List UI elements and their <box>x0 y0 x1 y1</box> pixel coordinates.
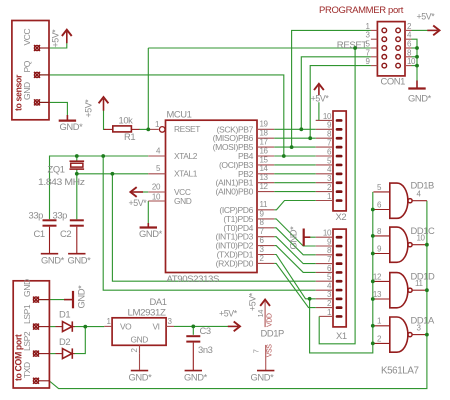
svg-text:C1: C1 <box>34 228 45 239</box>
svg-text:C3: C3 <box>200 325 211 336</box>
svg-text:XTAL2: XTAL2 <box>174 151 198 161</box>
junction CON1 gnd 8 <box>415 55 419 59</box>
right pin names <box>213 124 254 268</box>
wire gate output bus <box>49 201 427 389</box>
COM pad LSP2 <box>33 351 49 357</box>
svg-text:GND: GND <box>174 196 192 206</box>
CON1 pads right column <box>396 28 401 68</box>
wire XTAL2 net to X1 pin 4 <box>103 156 316 290</box>
X2 pin stubs <box>316 120 333 200</box>
X2 pads <box>336 119 343 202</box>
junction PQ to PB4 <box>282 154 286 158</box>
CON1 pads left column <box>382 28 387 68</box>
+5V supply symbol at sensor <box>62 30 72 44</box>
svg-text:X1: X1 <box>336 330 347 341</box>
wire MCU PB1 to X2 pin 3 <box>274 182 316 184</box>
pin numbers DD1C <box>377 227 426 254</box>
wire gate input bus <box>372 192 374 344</box>
wire crystal top lead <box>76 156 78 161</box>
resistor R1 <box>104 126 139 132</box>
junction CON1.1 net <box>290 145 294 149</box>
svg-text:11: 11 <box>415 279 423 288</box>
wire MCU PB3 to X2 pin 5 <box>274 164 316 166</box>
wire MCU PD1 diagonal to X1 pin 3 <box>274 255 316 299</box>
wire X2 pin 10 to +5V <box>316 102 319 120</box>
X1 pin stubs <box>316 237 333 316</box>
wire MCU PD4 diagonal to X1 pin 8 <box>274 228 316 255</box>
svg-text:C2: C2 <box>60 228 71 239</box>
svg-text:+5V*: +5V* <box>129 198 148 208</box>
+5V supply symbol at DA1 output (pointing right) <box>228 322 240 332</box>
wire C3 top lead <box>192 326 194 334</box>
svg-text:DD1B: DD1B <box>411 179 435 190</box>
svg-text:33p: 33p <box>53 209 68 220</box>
COM pad GND <box>33 297 49 303</box>
svg-text:ZQ1: ZQ1 <box>48 163 65 174</box>
ground symbol below DD1P VSS <box>257 370 274 372</box>
svg-text:VCC: VCC <box>22 28 32 45</box>
svg-text:10: 10 <box>323 229 332 238</box>
wire MCU PD2 diagonal to X1 pin 6 <box>274 246 316 273</box>
svg-text:GND*: GND* <box>139 228 163 239</box>
junction gate bus DD1C.8 <box>371 234 375 238</box>
wire sensor GND to ground <box>40 102 68 115</box>
svg-text:10k: 10k <box>119 114 134 125</box>
COM pad TXD <box>33 378 49 384</box>
wire MCU PD0 diagonal to X1 pin 2 <box>274 263 316 307</box>
wire D2 cathode up to D1 net <box>74 327 85 354</box>
wire RESET net horizontal to CON1 pin 5 <box>148 47 371 49</box>
svg-text:10: 10 <box>407 57 416 66</box>
junction XTAL2 to X1.4 <box>101 154 105 158</box>
wire XTAL1 net to X1 pin 5 <box>112 174 315 281</box>
wire MCU VCC to +5V arrow <box>143 191 149 193</box>
svg-text:33p: 33p <box>29 209 44 220</box>
svg-text:18: 18 <box>260 129 269 138</box>
svg-text:20: 20 <box>152 182 161 191</box>
svg-text:GND*: GND* <box>41 254 65 265</box>
junction R1 RESET <box>146 127 150 131</box>
svg-text:3n3: 3n3 <box>198 344 213 355</box>
junction CON1.9 net <box>308 136 312 140</box>
MCU right pins PB7-PB0 stubs <box>257 129 274 191</box>
ground symbol below DA1 <box>131 370 148 372</box>
wire MCU PD3 diagonal to X1 pin 7 <box>274 237 316 264</box>
wire D1 cathode to DA1 VO <box>74 326 104 328</box>
nand gate DD1B <box>373 183 427 218</box>
svg-text:RESET: RESET <box>337 40 368 50</box>
CON1 left pin stubs 1,3,5,7,9 <box>371 30 378 65</box>
svg-text:LSP2: LSP2 <box>22 331 32 351</box>
nand gate DD1A <box>373 317 427 352</box>
svg-text:17: 17 <box>260 138 269 147</box>
junction X1.3 TXD <box>308 297 312 301</box>
ground symbol below CON1 <box>408 81 425 89</box>
svg-text:GND: GND <box>22 279 32 297</box>
connector X2 box <box>333 111 346 211</box>
X1 pads <box>336 236 343 318</box>
svg-text:+5V*: +5V* <box>51 29 61 48</box>
svg-text:(RXD)PD0: (RXD)PD0 <box>216 258 254 268</box>
svg-text:RESET: RESET <box>174 124 200 134</box>
diode D1 <box>56 321 75 331</box>
svg-text:14: 14 <box>260 164 269 173</box>
crystal ZQ1 <box>70 161 85 169</box>
MCU pin 1 RESET with inversion circle <box>148 127 165 133</box>
junction CON1 gnd 6 <box>415 46 419 50</box>
svg-text:+5V*: +5V* <box>417 12 436 22</box>
wire MCU PB5 to X2 pin 7 <box>274 146 316 148</box>
MCU pin 4 XTAL2 <box>148 155 165 157</box>
svg-text:19: 19 <box>260 120 269 129</box>
svg-text:VO: VO <box>120 322 132 332</box>
svg-text:LSP1: LSP1 <box>22 304 32 324</box>
CON1 right pin numbers <box>407 22 416 66</box>
power pin DD1P VDD supply arrow <box>260 300 270 328</box>
MCU right pins PD6-PD0 stubs <box>257 210 274 264</box>
svg-text:GND: GND <box>131 334 149 344</box>
junction gate bus DD1A.1 <box>371 324 375 328</box>
junction gate bus DD1D.13 <box>371 297 375 301</box>
junction CON1 gnd 10 <box>415 64 419 68</box>
connector "to sensor" box <box>12 21 49 120</box>
junction gate bus DD1D.12 <box>371 280 375 284</box>
connector CON1 box <box>377 22 405 76</box>
svg-text:D2: D2 <box>59 336 70 347</box>
voltage regulator DA1 LM2931Z box <box>112 318 166 346</box>
junction output bus DD1C.10 <box>425 243 429 247</box>
svg-text:XTAL1: XTAL1 <box>174 169 198 179</box>
wire CON1 pin 6 stub to bus <box>412 47 418 49</box>
junction gate bus DD1C.9 <box>371 252 375 256</box>
svg-text:7: 7 <box>252 349 261 353</box>
nand gate DD1C <box>373 227 427 262</box>
pin numbers DD1D <box>373 272 424 299</box>
+5V supply symbol at CON1 (pointing right) <box>427 26 439 36</box>
CON1 right pin stubs 2,4,6,8,10 <box>405 30 412 65</box>
op-amp U1 MCU1 box <box>166 120 258 272</box>
svg-text:10: 10 <box>323 112 332 121</box>
capacitor C1 <box>43 220 57 253</box>
junction XTAL1 to X1.5 <box>111 172 115 176</box>
connector "to COM port" box <box>13 281 49 388</box>
wire CON1 pin 10 stub to bus <box>412 65 418 67</box>
X2 pin numbers <box>323 112 332 201</box>
ground symbol below C3 <box>185 370 202 372</box>
svg-text:PQ: PQ <box>22 60 32 72</box>
wire D2 anode <box>49 353 55 355</box>
wire XTAL2 net to C1 <box>50 156 149 219</box>
right pin numbers <box>260 120 269 263</box>
svg-text:GND*: GND* <box>184 372 208 383</box>
CON1 left pin numbers <box>365 22 370 66</box>
svg-text:12: 12 <box>373 272 382 281</box>
svg-text:X2: X2 <box>336 211 347 222</box>
DA1 pin 2 stub <box>139 345 141 353</box>
svg-text:GND*: GND* <box>251 372 275 383</box>
svg-text:13: 13 <box>260 173 269 182</box>
svg-text:R1: R1 <box>124 131 135 142</box>
wire X1 pin 10 to ground <box>310 236 316 238</box>
svg-text:14: 14 <box>256 310 265 318</box>
+5V supply symbol above X2 <box>314 84 324 95</box>
DA1 ground lead <box>139 353 141 370</box>
svg-text:GND*: GND* <box>60 121 84 132</box>
wire RESET net vertical up from R1 junction <box>147 48 149 129</box>
DA1 pin 3 stub <box>166 325 174 327</box>
junction D1 D2 <box>83 325 87 329</box>
svg-text:K561LA7: K561LA7 <box>381 366 419 377</box>
wire R1 to MCU RESET pin <box>139 128 148 130</box>
junction gate bus DD1A.2 <box>371 342 375 346</box>
power pin DD1P VSS lead <box>265 345 267 370</box>
svg-text:GND*: GND* <box>408 93 432 104</box>
ground symbol below sensor <box>59 115 76 121</box>
svg-text:1.843 MHz: 1.843 MHz <box>38 176 85 187</box>
sensor pad PQ <box>34 72 49 78</box>
svg-text:DA1: DA1 <box>150 296 167 307</box>
svg-text:10: 10 <box>152 193 161 202</box>
junction C3 <box>191 325 195 329</box>
ground symbol right of COM GND (rotated) <box>64 291 73 308</box>
junction CON1.7 net <box>299 127 303 131</box>
svg-text:MCU1: MCU1 <box>167 109 192 120</box>
diode D2 <box>56 348 75 358</box>
ground symbol below MCU GND pin <box>140 223 157 228</box>
svg-text:GND: GND <box>22 82 32 100</box>
junction output bus DD1A.3 <box>425 333 429 337</box>
svg-text:+5V*: +5V* <box>248 292 258 311</box>
connector X1 box <box>333 229 346 327</box>
wire MCU PB4 to X2 pin 6 <box>274 155 316 157</box>
wire MCU GND pin down <box>147 201 149 226</box>
wire MCU PB2 to X2 pin 4 <box>274 173 316 175</box>
wire RESET net from CON1 down to X1 pin 1 <box>319 48 355 344</box>
+5V supply symbol at MCU VCC (pointing left) <box>130 187 143 197</box>
wire CON1 ground bus <box>412 39 418 81</box>
wire CON1 pin 8 stub to bus <box>412 56 418 58</box>
svg-text:VI: VI <box>153 322 160 332</box>
svg-text:12: 12 <box>260 182 269 191</box>
DA1 pin 1 stub <box>104 325 112 327</box>
svg-text:VDD: VDD <box>267 313 274 327</box>
svg-text:+5V*: +5V* <box>219 308 238 318</box>
svg-text:GND*: GND* <box>76 285 87 309</box>
pin numbers DD1B <box>377 183 422 210</box>
wire TXD net X1 pin3 to gate inputs <box>310 299 373 353</box>
wire C2 top lead <box>76 174 78 220</box>
svg-text:13: 13 <box>373 290 382 299</box>
svg-text:(AIN0)PB0: (AIN0)PB0 <box>216 187 254 197</box>
svg-text:DD1A: DD1A <box>411 315 436 326</box>
ground symbol below C1 <box>41 253 58 255</box>
svg-text:+5V*: +5V* <box>311 93 330 103</box>
wire net CON1 pin 9 vertical <box>310 66 371 139</box>
wire net CON1 pin 7 vertical <box>301 57 371 130</box>
svg-text:16: 16 <box>260 146 269 155</box>
svg-text:PROGRAMMER port: PROGRAMMER port <box>319 5 404 16</box>
MCU pin 20 VCC <box>148 191 165 193</box>
wire MCU PD5 diagonal to X1 pin 9 <box>274 219 316 246</box>
capacitor C2 <box>70 220 84 253</box>
wire MCU PB7 to X2 pin 9 <box>274 128 316 130</box>
wire D1 anode <box>49 326 55 328</box>
wire +5V to R1 <box>104 111 106 130</box>
ground symbol below C2 <box>68 253 85 255</box>
wire CON1 pin 2 to +5V <box>412 29 428 31</box>
sensor pad VCC <box>34 45 49 51</box>
svg-text:GND*: GND* <box>68 254 92 265</box>
svg-text:15: 15 <box>260 155 269 164</box>
nand gate DD1D <box>373 273 427 308</box>
svg-text:LM2931Z: LM2931Z <box>128 306 167 317</box>
svg-text:10: 10 <box>417 234 426 243</box>
wire XTAL1 net to crystal and C2 <box>77 173 149 175</box>
junction crystal bottom <box>75 172 79 176</box>
svg-text:AT90S2313S: AT90S2313S <box>167 273 220 284</box>
svg-text:TXD: TXD <box>22 362 32 378</box>
junction crystal top <box>75 154 79 158</box>
MCU pin 10 GND <box>148 200 165 202</box>
wire MCU PB0 to X2 pin 2 <box>274 191 316 193</box>
wire COM port GND pin <box>40 299 65 301</box>
wire MCU PD6 to X2 pin 1 <box>274 201 316 210</box>
svg-text:GND*: GND* <box>129 372 153 383</box>
sensor pad GND <box>34 99 49 105</box>
wire SCK net CON1 pin 1 vertical <box>292 30 371 147</box>
pin numbers DD1A <box>377 317 422 344</box>
svg-text:D1: D1 <box>59 308 70 319</box>
X1 pin numbers <box>323 229 332 317</box>
wire DA1 VI to +5V and C3 <box>174 325 228 327</box>
wire sensor VCC to +5V <box>40 43 67 48</box>
capacitor C3 <box>186 336 200 370</box>
svg-text:11: 11 <box>260 200 268 209</box>
COM pad LSP1 <box>33 324 49 330</box>
svg-text:+5V*: +5V* <box>84 99 94 118</box>
svg-text:CON1: CON1 <box>381 75 406 86</box>
wire MCU PB6 to X2 pin 8 <box>274 137 316 139</box>
+5V supply symbol at R1 <box>99 97 109 111</box>
wire crystal bottom lead <box>76 169 78 174</box>
wire net PQ from sensor to MCU PB4 <box>40 75 284 156</box>
junction RESET line <box>353 46 357 50</box>
MCU pin 5 XTAL1 <box>148 173 165 175</box>
svg-text:VSS: VSS <box>267 344 274 358</box>
svg-text:DD1P: DD1P <box>261 328 285 339</box>
svg-text:GND*: GND* <box>288 226 299 250</box>
junction gate bus DD1B.6 <box>371 208 375 212</box>
ground symbol at X1 pin 10 (rotated) <box>304 229 311 246</box>
junction output bus DD1D.11 <box>425 288 429 292</box>
